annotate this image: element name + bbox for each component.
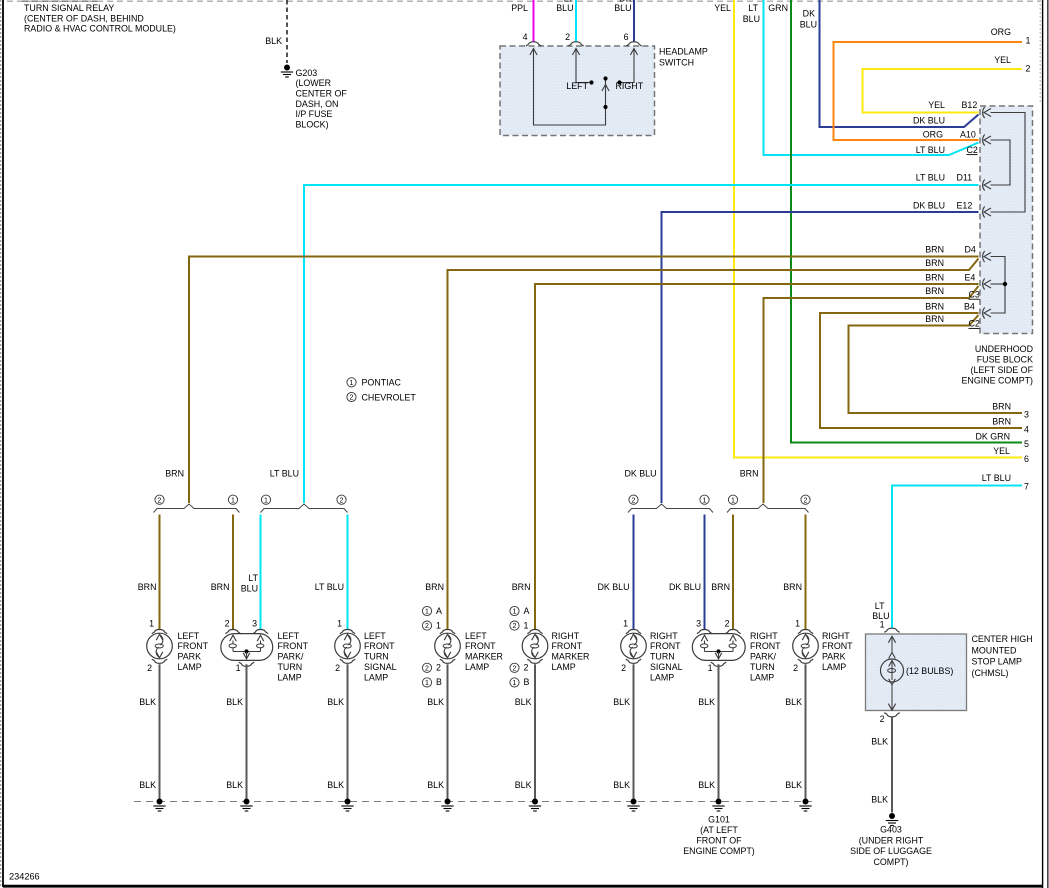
svg-text:B: B bbox=[436, 677, 442, 687]
svg-text:G101: G101 bbox=[708, 815, 730, 825]
wire DK BLU to right front turn signal lamp pin 1 bbox=[597, 515, 633, 630]
svg-text:5: 5 bbox=[1024, 439, 1029, 449]
wire BLK lamp to ground bus at x=718.5 bbox=[698, 664, 718, 801]
wire BLK lamp to ground bus at x=535 bbox=[515, 664, 535, 801]
svg-text:FUSE BLOCK: FUSE BLOCK bbox=[977, 355, 1033, 365]
svg-text:TURN: TURN bbox=[364, 652, 389, 662]
svg-text:PPL: PPL bbox=[511, 3, 528, 13]
svg-text:I/P FUSE: I/P FUSE bbox=[296, 109, 333, 119]
wire BRN from fuse B4 to connector pin 4 bbox=[820, 301, 1029, 434]
wire LT BLU to left front turn signal lamp pin 1 bbox=[315, 515, 348, 630]
svg-text:LT BLU: LT BLU bbox=[916, 145, 945, 155]
svg-text:LEFT: LEFT bbox=[364, 631, 386, 641]
svg-text:RADIO & HVAC CONTROL MODULE): RADIO & HVAC CONTROL MODULE) bbox=[24, 24, 176, 34]
svg-text:BLOCK): BLOCK) bbox=[296, 120, 329, 130]
wire BRN from fuse E4/C3 to right park lamps bbox=[740, 286, 979, 503]
svg-text:1: 1 bbox=[236, 663, 241, 673]
svg-text:BLK: BLK bbox=[515, 780, 532, 790]
svg-text:LT: LT bbox=[748, 3, 758, 13]
fuse block pin B4 bbox=[964, 301, 991, 318]
fuse block pin D11 bbox=[957, 172, 992, 190]
fuse block pin E4 bbox=[965, 273, 992, 290]
svg-text:LAMP: LAMP bbox=[178, 662, 202, 672]
lamp center high mounted stop lamp (CHMSL, 12 bulbs) bbox=[866, 628, 1033, 724]
lamp left front park/turn lamp bbox=[221, 619, 309, 683]
wire BLK lamp to ground bus at x=447.5 bbox=[427, 664, 447, 801]
svg-text:(CENTER OF DASH, BEHIND: (CENTER OF DASH, BEHIND bbox=[24, 13, 144, 23]
svg-text:C2: C2 bbox=[969, 319, 980, 329]
wire LT BLU from fuse D11 to left turn lamps bbox=[270, 172, 979, 503]
svg-text:(LOWER: (LOWER bbox=[296, 78, 332, 88]
svg-text:BLK: BLK bbox=[427, 697, 444, 707]
svg-text:FRONT: FRONT bbox=[278, 641, 309, 651]
lamp right front marker lamp bbox=[510, 606, 590, 687]
ground bus G101 bbox=[134, 799, 812, 856]
svg-text:BRN: BRN bbox=[925, 244, 944, 254]
svg-text:RIGHT: RIGHT bbox=[650, 631, 678, 641]
svg-text:2: 2 bbox=[793, 663, 798, 673]
svg-text:CHEVROLET: CHEVROLET bbox=[362, 392, 417, 402]
svg-text:2: 2 bbox=[621, 663, 626, 673]
svg-text:BLK: BLK bbox=[613, 780, 630, 790]
wire YEL from connector pin 2 to fuse block pin B12 bbox=[863, 55, 1031, 113]
svg-text:BLU: BLU bbox=[614, 3, 631, 13]
svg-text:7: 7 bbox=[1024, 482, 1029, 492]
headlamp switch bbox=[500, 42, 708, 136]
lamp left front marker lamp bbox=[422, 606, 503, 687]
svg-text:LT BLU: LT BLU bbox=[270, 468, 299, 478]
svg-text:3: 3 bbox=[252, 619, 257, 629]
svg-text:BLK: BLK bbox=[871, 736, 888, 746]
svg-text:E12: E12 bbox=[957, 200, 973, 210]
svg-text:(12 BULBS): (12 BULBS) bbox=[906, 666, 953, 676]
svg-text:YEL: YEL bbox=[714, 3, 731, 13]
svg-text:A: A bbox=[436, 606, 442, 616]
svg-text:UNDERHOOD: UNDERHOOD bbox=[975, 344, 1033, 354]
svg-text:1: 1 bbox=[513, 680, 517, 687]
svg-text:4: 4 bbox=[1024, 424, 1029, 434]
connector option brace (left park lamps) bbox=[154, 495, 240, 512]
svg-text:C2: C2 bbox=[967, 145, 978, 155]
svg-text:1: 1 bbox=[1026, 35, 1031, 45]
wire YEL to connector pin 6 bbox=[714, 0, 1029, 464]
svg-text:DK BLU: DK BLU bbox=[913, 200, 945, 210]
svg-text:G203: G203 bbox=[296, 68, 318, 78]
svg-text:4: 4 bbox=[523, 32, 528, 42]
svg-text:DK BLU: DK BLU bbox=[913, 116, 945, 126]
wire BRN to left front park lamp pin 1 bbox=[138, 515, 160, 630]
wire BRN from fuse B4/C2 to connector pin 3 bbox=[849, 314, 1030, 419]
fuse block label C3 (alt pin) bbox=[969, 289, 980, 299]
wire ORG from connector pin 1 to fuse block pin A10 bbox=[834, 27, 1031, 140]
svg-text:CENTER OF: CENTER OF bbox=[296, 89, 348, 99]
wire BRN from fuse D4 to left park lamps bbox=[165, 244, 978, 503]
lamp right front turn signal lamp bbox=[621, 619, 683, 683]
svg-text:(AT LEFT: (AT LEFT bbox=[700, 825, 738, 835]
svg-text:1: 1 bbox=[264, 497, 268, 504]
svg-text:234266: 234266 bbox=[9, 872, 40, 882]
svg-text:BRN: BRN bbox=[925, 314, 944, 324]
wire BLK lamp to ground bus at x=246.5 bbox=[226, 664, 246, 801]
fuse block internal link D4-E4-B4 bbox=[991, 257, 1008, 314]
svg-text:2: 2 bbox=[513, 665, 517, 672]
svg-text:ENGINE COMPT): ENGINE COMPT) bbox=[683, 846, 755, 856]
svg-text:LEFT: LEFT bbox=[566, 81, 588, 91]
wire LT BLU to fuse block pin C2 bbox=[743, 0, 979, 155]
svg-text:LAMP: LAMP bbox=[552, 662, 576, 672]
svg-text:LT BLU: LT BLU bbox=[315, 582, 344, 592]
underhood fuse block bbox=[962, 106, 1034, 385]
fuse block label C2 (alt pin) bbox=[967, 145, 978, 155]
svg-text:1: 1 bbox=[708, 663, 713, 673]
svg-text:LT BLU: LT BLU bbox=[982, 473, 1011, 483]
svg-text:RIGHT: RIGHT bbox=[822, 631, 850, 641]
wire BLK lamp to ground bus at x=347.5 bbox=[327, 664, 347, 801]
svg-text:LAMP: LAMP bbox=[750, 672, 774, 682]
svg-text:B4: B4 bbox=[964, 301, 975, 311]
svg-text:1: 1 bbox=[880, 619, 885, 629]
svg-text:STOP LAMP: STOP LAMP bbox=[972, 657, 1023, 667]
svg-text:ENGINE COMPT): ENGINE COMPT) bbox=[962, 375, 1034, 385]
fuse block pin D4 bbox=[965, 244, 992, 262]
svg-text:SIGNAL: SIGNAL bbox=[364, 662, 397, 672]
svg-text:BRN: BRN bbox=[425, 582, 444, 592]
svg-text:(LEFT SIDE OF: (LEFT SIDE OF bbox=[971, 365, 1034, 375]
fuse block pin A10 bbox=[960, 130, 991, 146]
svg-text:SWITCH: SWITCH bbox=[659, 57, 694, 67]
wire DK BLU to fuse block pin B12 bbox=[800, 0, 979, 127]
svg-text:LAMP: LAMP bbox=[278, 672, 302, 682]
svg-text:2: 2 bbox=[1026, 63, 1031, 73]
wire DK BLU to headlamp switch pin 6 bbox=[614, 0, 634, 42]
svg-text:LT BLU: LT BLU bbox=[916, 172, 945, 182]
svg-text:MOUNTED: MOUNTED bbox=[972, 645, 1017, 655]
svg-text:DK GRN: DK GRN bbox=[975, 431, 1010, 441]
svg-text:1: 1 bbox=[795, 619, 800, 629]
turn signal relay (off-page, label) bbox=[22, 1, 176, 33]
svg-text:BRN: BRN bbox=[711, 582, 730, 592]
svg-text:D4: D4 bbox=[965, 244, 976, 254]
svg-text:BLK: BLK bbox=[226, 697, 243, 707]
svg-text:CENTER HIGH: CENTER HIGH bbox=[972, 634, 1033, 644]
svg-text:BLK: BLK bbox=[785, 780, 802, 790]
svg-text:RIGHT: RIGHT bbox=[552, 631, 580, 641]
svg-text:FRONT: FRONT bbox=[822, 641, 853, 651]
svg-text:2: 2 bbox=[225, 619, 230, 629]
svg-text:DK: DK bbox=[803, 9, 815, 19]
svg-text:LAMP: LAMP bbox=[650, 672, 674, 682]
svg-text:6: 6 bbox=[1024, 454, 1029, 464]
svg-text:RIGHT: RIGHT bbox=[616, 81, 644, 91]
svg-text:BLK: BLK bbox=[698, 697, 715, 707]
svg-text:1: 1 bbox=[231, 497, 235, 504]
svg-text:2: 2 bbox=[524, 663, 529, 673]
svg-text:A: A bbox=[524, 606, 530, 616]
svg-text:A10: A10 bbox=[960, 130, 976, 140]
svg-text:D11: D11 bbox=[957, 172, 973, 182]
svg-text:LT: LT bbox=[875, 601, 885, 611]
svg-text:3: 3 bbox=[696, 619, 701, 629]
wire BLK lamp to ground bus at x=633.5 bbox=[613, 664, 633, 801]
svg-text:2: 2 bbox=[725, 619, 730, 629]
connector option brace (right turn lamps) bbox=[628, 495, 713, 512]
svg-text:BLK: BLK bbox=[515, 697, 532, 707]
svg-text:TURN: TURN bbox=[750, 662, 775, 672]
svg-text:BLK: BLK bbox=[698, 780, 715, 790]
svg-text:PARK: PARK bbox=[822, 652, 846, 662]
wire BLK from CHMSL to G403 bbox=[871, 717, 892, 813]
connector option brace (left turn lamps) bbox=[261, 495, 348, 512]
svg-text:BLU: BLU bbox=[241, 583, 258, 593]
svg-text:BLK: BLK bbox=[327, 780, 344, 790]
wire BLK from turn signal relay to G203 bbox=[265, 0, 287, 63]
fuse block pin E12 bbox=[957, 200, 992, 217]
svg-text:LEFT: LEFT bbox=[278, 631, 300, 641]
svg-text:ORG: ORG bbox=[923, 130, 943, 140]
svg-text:3: 3 bbox=[1024, 409, 1029, 419]
svg-text:1: 1 bbox=[731, 497, 735, 504]
svg-text:BLK: BLK bbox=[139, 780, 156, 790]
lamp left front turn signal lamp bbox=[335, 619, 397, 683]
svg-text:1: 1 bbox=[425, 609, 429, 616]
svg-text:1: 1 bbox=[149, 619, 154, 629]
svg-text:DK BLU: DK BLU bbox=[597, 582, 629, 592]
svg-text:DK BLU: DK BLU bbox=[669, 582, 701, 592]
svg-text:BLK: BLK bbox=[785, 697, 802, 707]
svg-text:ORG: ORG bbox=[991, 27, 1011, 37]
svg-text:BRN: BRN bbox=[992, 417, 1011, 427]
svg-text:LAMP: LAMP bbox=[822, 662, 846, 672]
svg-text:2: 2 bbox=[880, 714, 885, 724]
svg-text:YEL: YEL bbox=[928, 100, 945, 110]
svg-text:TURN: TURN bbox=[650, 652, 675, 662]
wire PPL to headlamp switch pin 4 bbox=[511, 0, 533, 42]
lamp right front park lamp bbox=[793, 619, 853, 674]
svg-text:BRN: BRN bbox=[925, 258, 944, 268]
svg-text:1: 1 bbox=[436, 620, 441, 630]
wire LT BLU to headlamp switch pin 2 bbox=[556, 0, 576, 42]
svg-text:SIGNAL: SIGNAL bbox=[650, 662, 683, 672]
wire DK BLU to right front park/turn lamp pin 3 bbox=[669, 515, 705, 630]
svg-text:G403: G403 bbox=[880, 825, 902, 835]
fuse block internal link A10-D11 bbox=[991, 140, 1011, 185]
svg-text:HEADLAMP: HEADLAMP bbox=[659, 47, 708, 57]
svg-text:LAMP: LAMP bbox=[364, 672, 388, 682]
svg-text:BLK: BLK bbox=[139, 697, 156, 707]
svg-text:1: 1 bbox=[337, 619, 342, 629]
fuse block internal link B12-E12 bbox=[991, 113, 1026, 213]
svg-text:FRONT: FRONT bbox=[650, 641, 681, 651]
ground G203 bbox=[281, 65, 348, 130]
svg-text:FRONT: FRONT bbox=[364, 641, 395, 651]
svg-text:BRN: BRN bbox=[925, 301, 944, 311]
svg-text:LEFT: LEFT bbox=[178, 631, 200, 641]
svg-text:BRN: BRN bbox=[165, 468, 184, 478]
svg-text:2: 2 bbox=[436, 663, 441, 673]
svg-text:2: 2 bbox=[632, 497, 636, 504]
svg-text:BLK: BLK bbox=[613, 697, 630, 707]
svg-text:TURN SIGNAL RELAY: TURN SIGNAL RELAY bbox=[24, 3, 114, 13]
svg-text:2: 2 bbox=[425, 665, 429, 672]
wire LT BLU from connector pin 7 to CHMSL pin 1 bbox=[872, 473, 1029, 629]
svg-text:1: 1 bbox=[425, 680, 429, 687]
wire BRN from fuse E4 to right front marker lamp bbox=[512, 273, 979, 629]
wire BLK lamp to ground bus at x=805.5 bbox=[785, 664, 805, 801]
svg-text:2: 2 bbox=[340, 497, 344, 504]
svg-text:2: 2 bbox=[425, 623, 429, 630]
svg-text:2: 2 bbox=[147, 663, 152, 673]
svg-text:BLK: BLK bbox=[427, 780, 444, 790]
svg-text:RIGHT: RIGHT bbox=[750, 631, 778, 641]
svg-text:6: 6 bbox=[624, 32, 629, 42]
svg-text:BRN: BRN bbox=[211, 582, 230, 592]
svg-text:1: 1 bbox=[350, 380, 354, 387]
diagram number bbox=[9, 872, 40, 882]
svg-text:BLU: BLU bbox=[743, 14, 760, 24]
svg-text:LEFT: LEFT bbox=[465, 631, 487, 641]
connector option brace (right park lamps) bbox=[727, 495, 810, 512]
fuse block pin B12 bbox=[962, 100, 992, 118]
svg-text:FRONT: FRONT bbox=[178, 641, 209, 651]
svg-text:E4: E4 bbox=[965, 273, 976, 283]
svg-text:1: 1 bbox=[524, 620, 529, 630]
svg-text:2: 2 bbox=[513, 623, 517, 630]
svg-text:BLU: BLU bbox=[800, 20, 817, 30]
svg-text:LT: LT bbox=[248, 573, 258, 583]
svg-text:PARK: PARK bbox=[178, 652, 202, 662]
svg-text:COMPT): COMPT) bbox=[873, 857, 908, 867]
svg-text:BRN: BRN bbox=[925, 273, 944, 283]
svg-text:BLK: BLK bbox=[265, 36, 282, 46]
svg-text:1: 1 bbox=[513, 609, 517, 616]
wire GRN to connector pin 5 bbox=[768, 0, 1029, 449]
svg-text:YEL: YEL bbox=[993, 446, 1010, 456]
svg-text:YEL: YEL bbox=[994, 55, 1011, 65]
svg-text:FRONT: FRONT bbox=[750, 641, 781, 651]
svg-text:BRN: BRN bbox=[783, 582, 802, 592]
svg-text:BRN: BRN bbox=[992, 402, 1011, 412]
svg-text:LAMP: LAMP bbox=[465, 662, 489, 672]
svg-text:BLK: BLK bbox=[871, 794, 888, 804]
lamp right front park/turn lamp bbox=[692, 619, 781, 683]
svg-text:2: 2 bbox=[565, 32, 570, 42]
wire BRN from fuse D4 to left front marker lamp bbox=[425, 258, 978, 629]
legend Pontiac/Chevrolet bbox=[347, 378, 416, 403]
svg-text:FRONT OF: FRONT OF bbox=[696, 835, 742, 845]
svg-text:BLU: BLU bbox=[556, 3, 573, 13]
svg-text:BLK: BLK bbox=[327, 697, 344, 707]
svg-text:MARKER: MARKER bbox=[465, 652, 503, 662]
svg-text:BRN: BRN bbox=[925, 286, 944, 296]
svg-text:BRN: BRN bbox=[138, 582, 157, 592]
wire DK BLU from fuse E12 to right turn lamps bbox=[624, 200, 978, 503]
wire BRN to left front park/turn lamp pin 2 bbox=[211, 515, 233, 630]
svg-text:GRN: GRN bbox=[768, 3, 788, 13]
svg-text:2: 2 bbox=[335, 663, 340, 673]
svg-text:2: 2 bbox=[158, 497, 162, 504]
svg-text:BRN: BRN bbox=[740, 468, 759, 478]
lamp left front park lamp bbox=[147, 619, 209, 674]
svg-text:FRONT: FRONT bbox=[552, 641, 583, 651]
svg-text:DK BLU: DK BLU bbox=[624, 468, 656, 478]
wire LT BLU to left front park/turn lamp pin 3 bbox=[241, 515, 261, 630]
svg-text:BRN: BRN bbox=[512, 582, 531, 592]
svg-text:1: 1 bbox=[703, 497, 707, 504]
fuse block label C2 (alt pin, lower) bbox=[969, 319, 980, 329]
svg-text:(UNDER RIGHT: (UNDER RIGHT bbox=[859, 835, 924, 845]
svg-text:1: 1 bbox=[623, 619, 628, 629]
svg-text:DASH, ON: DASH, ON bbox=[296, 99, 339, 109]
svg-text:PARK/: PARK/ bbox=[278, 652, 305, 662]
svg-text:B12: B12 bbox=[962, 100, 978, 110]
svg-text:PARK/: PARK/ bbox=[750, 652, 777, 662]
svg-text:MARKER: MARKER bbox=[552, 652, 590, 662]
svg-text:BLK: BLK bbox=[226, 780, 243, 790]
svg-text:PONTIAC: PONTIAC bbox=[362, 378, 402, 388]
wire BRN to right front park/turn lamp pin 2 bbox=[711, 515, 733, 630]
svg-text:FRONT: FRONT bbox=[465, 641, 496, 651]
ground G403 bbox=[850, 813, 932, 867]
svg-text:B: B bbox=[524, 677, 530, 687]
svg-text:TURN: TURN bbox=[278, 662, 303, 672]
wire BLK lamp to ground bus at x=159.5 bbox=[139, 664, 159, 801]
svg-text:(CHMSL): (CHMSL) bbox=[972, 668, 1009, 678]
svg-text:2: 2 bbox=[350, 395, 354, 402]
svg-text:SIDE OF LUGGAGE: SIDE OF LUGGAGE bbox=[850, 846, 932, 856]
svg-text:C3: C3 bbox=[969, 289, 980, 299]
wire BRN to right front park lamp pin 1 bbox=[783, 515, 805, 630]
svg-text:2: 2 bbox=[804, 497, 808, 504]
